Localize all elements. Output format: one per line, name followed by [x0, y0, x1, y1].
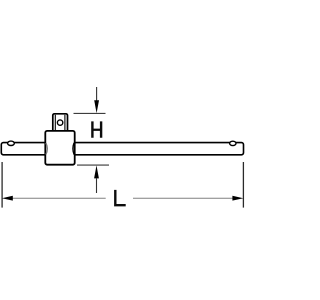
H dimension bottom extension line [77, 164, 109, 166]
H dimension top extension line [74, 112, 106, 114]
L label [114, 190, 126, 207]
tang left chamfer line [54, 115, 56, 132]
bar junction arc left [46, 143, 47, 155]
sliding T-bar body [1, 143, 243, 155]
L dimension left extension line [1, 162, 3, 208]
H dimension bottom arrowhead [94, 165, 99, 178]
H label [91, 121, 102, 137]
H dimension bottom arrow shaft [96, 178, 98, 193]
L dimension line right segment [133, 197, 234, 199]
H dimension top arrowhead [94, 100, 99, 113]
square drive tang [53, 114, 68, 134]
H dimension top arrow shaft [96, 87, 98, 102]
bar junction arc right [73, 143, 74, 155]
L dimension left arrowhead [2, 196, 13, 201]
L dimension line left segment [11, 197, 106, 199]
hanging hole right [230, 141, 236, 145]
hanging hole left [8, 141, 15, 145]
L dimension right arrowhead [232, 196, 243, 201]
L dimension right extension line [242, 162, 244, 208]
sliding head block [45, 131, 74, 165]
detent ball hole [57, 120, 62, 125]
tang right chamfer line [64, 115, 66, 132]
